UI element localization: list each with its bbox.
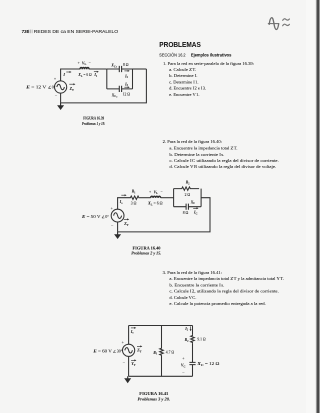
current arrow I1 [93,71,98,78]
label E = 50 V angle 0 [81,214,110,219]
handwritten sine annotation [268,18,289,30]
bottom bus wire [129,375,193,377]
inductor XL fig 16.39 [80,68,89,70]
svg-text:738: 738 [22,29,30,34]
svg-text:3. Para la red de la figura 16: 3. Para la red de la figura 16.41: [163,270,222,275]
svg-text:−: − [161,190,163,194]
svg-text:E = 50 V: E = 50 V [81,214,101,219]
impedance arrow ZT fig 16.40 [123,218,129,227]
ground fig 16.40 [114,232,121,239]
wire source bottom [60,93,62,103]
capacitor XC fig 16.41 [189,362,195,364]
svg-text:c. Calcule I C utilizando la r: c. Calcule I C utilizando la regla del d… [169,158,278,163]
svg-text:a. Encuentre la impedancia tot: a. Encuentre la impedancia total Z T. [169,146,237,151]
svg-text:Problemas 3 y 20.: Problemas 3 y 20. [138,397,171,402]
middle branch wire bottom [161,356,163,376]
svg-text:d. Calcule V C.: d. Calcule V C. [169,295,196,300]
svg-text:c. Determine I 1.: c. Determine I 1. [169,79,198,84]
wire source top to inductor [61,69,80,81]
svg-text:9.1 Ω: 9.1 Ω [197,337,206,341]
label E = 12 V angle 0 [25,84,56,89]
svg-text:b. Determine la corriente I s.: b. Determine la corriente I s. [169,152,224,157]
wire inductor to node [89,68,107,70]
caption FIGURA 16.41 [138,391,171,402]
wire source bottom [128,356,130,376]
svg-text:SECCIÓN 16.2: SECCIÓN 16.2 [159,51,186,57]
svg-text:8 Ω: 8 Ω [183,211,189,215]
svg-text:2 Ω: 2 Ω [185,193,191,197]
label E = 60 V angle 30 [92,349,123,354]
capacitor XC (bottom branch) [174,204,202,210]
svg-text:Problemas 2 y 15.: Problemas 2 y 15. [131,250,161,255]
svg-text:b. Determine I.: b. Determine I. [169,73,197,78]
resistor R1 fig 16.40 [130,196,140,199]
wire inductor to parallel block [161,197,174,199]
wire source top to R1 [118,198,130,210]
ground fig 16.41 [124,376,131,383]
wire block to right rail and bottom return [118,198,210,232]
right rail and bottom return wire [61,69,147,103]
wire node B to right rail [133,68,147,70]
right branch wire bottom [192,365,194,377]
right branch wire top [192,326,194,335]
problem 3 text [163,270,284,306]
svg-text:a. Calcule Z T.: a. Calcule Z T. [169,67,196,72]
resistor R2 fig 16.41 [191,335,195,343]
svg-text:12 Ω: 12 Ω [123,93,131,97]
inductor XL fig 16.40 [151,196,161,198]
svg-text:E = 12 V: E = 12 V [25,84,46,89]
svg-text:3 Ω: 3 Ω [131,201,137,205]
impedance arrow ZT fig 16.39 [69,83,76,92]
parallel block left conductor [173,189,175,207]
capacitor XC2 (bottom branch) [107,86,133,92]
wire R1 to inductor [140,197,151,199]
PROBLEMAS heading [159,40,231,57]
svg-text:30°: 30° [117,349,123,354]
current arrow Is fig 16.41 [130,327,136,335]
admittance arrow YT fig 16.41 [131,359,136,367]
top bus wire [129,325,193,327]
impedance arrow ZT fig 16.41 [136,345,142,353]
current arrow I2 [124,70,130,79]
svg-text:I: I [62,72,65,77]
svg-text:a. Encuentre la impedancia tot: a. Encuentre la impedancia total Z T y l… [169,276,284,281]
resistor R2 (top branch) [174,187,200,190]
running head [22,29,119,34]
ground fig 16.39 [57,103,64,110]
svg-text:PROBLEMAS: PROBLEMAS [159,40,201,49]
svg-text:+: + [149,190,151,194]
svg-text:E = 60 V: E = 60 V [92,349,112,354]
parallel branch left conductor [106,69,108,89]
wire source bottom [117,222,119,232]
svg-text:d. Encuentre I 2 e I 3.: d. Encuentre I 2 e I 3. [169,86,206,91]
svg-text:8 Ω: 8 Ω [123,63,129,67]
svg-text:+: + [78,61,80,65]
caption FIGURA 16.39 [82,116,105,126]
label + VL - [78,61,91,66]
wire top to source [128,326,130,345]
svg-text:e. Encuentre V 1.: e. Encuentre V 1. [169,92,199,97]
middle branch wire top [161,326,163,348]
label + VL - [149,190,163,195]
current arrow I2 fig 16.41 [184,326,191,331]
ac source E fig 16.41 [123,344,135,356]
svg-text:2. Para la red de la figura 16: 2. Para la red de la figura 16.40: [163,139,222,144]
parallel block right conductor [200,189,202,207]
svg-text:b. Encuentre la corriente I s.: b. Encuentre la corriente I s. [169,282,224,287]
current arrow I3 [124,82,130,88]
current arrow IC [193,207,199,215]
current arrow I [62,71,71,77]
svg-text:4.7 Ω: 4.7 Ω [166,350,175,354]
svg-text:FIGURA 16.41: FIGURA 16.41 [139,391,168,396]
svg-text:Ejemplos ilustrativos: Ejemplos ilustrativos [191,52,232,57]
svg-text:1. Para la red en serie-parale: 1. Para la red en serie-paralelo de la f… [163,61,254,66]
problem 1 text [163,61,254,97]
parallel branch right conductor [132,69,134,89]
svg-text:0°: 0° [105,214,109,219]
problem 2 text [163,139,279,169]
svg-text:Problemas 1 y 19.: Problemas 1 y 19. [82,121,105,126]
capacitor XC1 (top branch) [107,66,133,72]
right branch wire middle [192,343,194,362]
svg-text:−: − [89,61,91,65]
svg-text:e. Calcule la potencia promedi: e. Calcule la potencia promedio entregad… [169,301,266,306]
resistor R1 fig 16.41 [160,348,164,356]
page edge shading right [306,0,320,413]
svg-text:0°: 0° [52,84,56,89]
svg-text:d. Calcule V R utilizando la r: d. Calcule V R utilizando la regla del d… [169,164,276,169]
current arrow Is [119,194,127,205]
svg-text:REDES DE ca EN SERIE-PARALELO: REDES DE ca EN SERIE-PARALELO [34,29,119,34]
caption FIGURA 16.40 [131,245,161,255]
ac source E fig 16.39 [55,81,67,93]
ac source E fig 16.40 [111,209,124,222]
svg-text:FIGURA 16.39: FIGURA 16.39 [83,116,104,121]
